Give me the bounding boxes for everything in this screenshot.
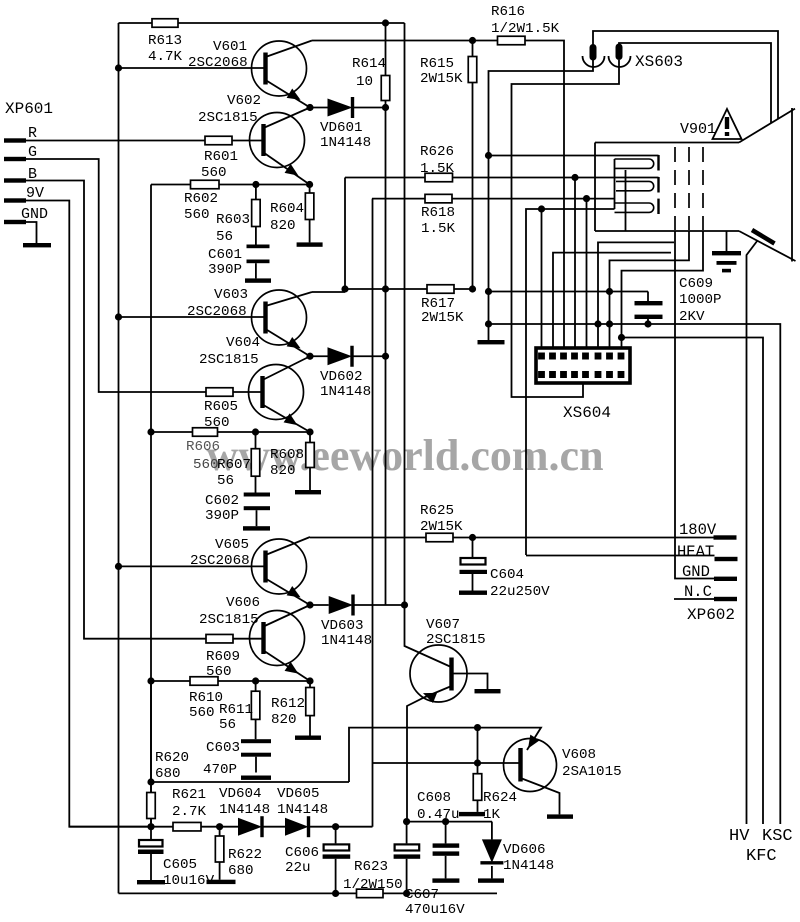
svg-text:KSC: KSC: [762, 827, 793, 846]
svg-text:1.5K: 1.5K: [420, 161, 455, 177]
wire 9V supply: [26, 201, 151, 827]
svg-text:2W15K: 2W15K: [421, 310, 464, 326]
node R608 top V604 emitter: [306, 428, 313, 435]
ground CRT aquadag: [712, 251, 741, 255]
svg-text:R626: R626: [420, 144, 454, 160]
XS604 top pin 6: [595, 353, 602, 360]
svg-text:0.47u: 0.47u: [417, 807, 460, 823]
svg-text:XS604: XS604: [563, 404, 611, 422]
CRT grid bar G: [657, 177, 659, 193]
capacitor C604: [472, 538, 474, 558]
svg-text:180V: 180V: [679, 521, 717, 539]
transistor V606 2SC1815 body: [250, 611, 305, 666]
wire G output column x345: [344, 178, 346, 290]
node C607 bottom: [403, 890, 410, 897]
transistor V607 body: [410, 645, 467, 702]
wire XS604 pin1: [541, 209, 543, 352]
resistor R603: [255, 185, 257, 200]
node R622 top: [216, 823, 223, 830]
transistor V601 collector: [266, 41, 313, 58]
svg-text:2W15K: 2W15K: [420, 519, 463, 535]
transistor V605 collector: [266, 537, 311, 555]
ground R604: [297, 242, 323, 246]
svg-text:R613: R613: [148, 33, 182, 49]
svg-text:2SC2068: 2SC2068: [190, 553, 250, 569]
resistor R625: [426, 533, 453, 542]
ground C608: [432, 878, 459, 882]
diode VD601: [310, 107, 328, 109]
svg-text:R612: R612: [271, 696, 305, 712]
node XS604 pin4 tap: [571, 174, 578, 181]
diode VD606: [491, 822, 493, 840]
transistor V608 body: [504, 739, 557, 792]
svg-text:820: 820: [270, 463, 296, 479]
transistor V607 collector: [452, 674, 488, 690]
wire B input: [26, 181, 206, 639]
XS604 bottom pin 11: [560, 371, 567, 378]
CRT funnel top edge: [739, 109, 795, 143]
XS604 bottom pin 14: [595, 371, 602, 378]
svg-text:1/2W150: 1/2W150: [343, 877, 403, 893]
XS604 bottom pin 9: [538, 371, 545, 378]
resistor R620: [150, 681, 152, 793]
svg-text:V601: V601: [213, 39, 247, 55]
transistor V606 collector: [264, 605, 311, 627]
CRT gun cathode G: [616, 181, 654, 190]
wire KSC line: [622, 338, 764, 825]
node C603 line from bias column: [147, 778, 154, 785]
resistor R605: [206, 388, 233, 397]
svg-text:VD602: VD602: [320, 369, 363, 385]
resistor R613: [152, 19, 178, 28]
svg-text:1/2W1.5K: 1/2W1.5K: [491, 21, 560, 37]
node V601 emitter V602 collector: [306, 104, 313, 111]
transistor V602 base wire: [232, 140, 264, 142]
svg-text:C607: C607: [405, 887, 439, 903]
svg-text:470u16V: 470u16V: [405, 902, 465, 917]
svg-text:R611: R611: [219, 702, 253, 718]
XS604 bottom pin 10: [549, 371, 556, 378]
wire XS603 right jack to CRT: [619, 43, 771, 124]
capacitor C609: [647, 292, 649, 302]
node R617 R615 junction: [469, 285, 476, 292]
node R624 emitter tap: [474, 724, 481, 731]
transistor V605 base wire: [119, 565, 266, 567]
XP601 pin R: [4, 138, 26, 142]
node C606 top: [332, 823, 339, 830]
wire focus to XS604 pin2: [553, 253, 671, 352]
node R624 base node: [474, 759, 481, 766]
wire XS603 left jack to CRT top: [593, 31, 778, 120]
svg-text:1N4148: 1N4148: [219, 802, 270, 818]
transistor V603 collector: [266, 292, 313, 306]
wire top rail drop x404 to V607 base: [405, 23, 451, 667]
ground C605: [137, 880, 165, 884]
wire R input: [26, 140, 205, 142]
svg-text:R623: R623: [354, 859, 388, 875]
transistor V601 emitter: [266, 80, 311, 108]
XS604 top pin 8: [618, 353, 625, 360]
ground XP601: [23, 243, 51, 247]
wire stage1 bias rail: [151, 184, 310, 186]
XP601 pin 9V: [4, 198, 26, 202]
node C609 ground: [644, 320, 651, 327]
svg-text:56: 56: [219, 717, 236, 733]
svg-text:1N4148: 1N4148: [503, 858, 554, 874]
CRT envelope neck bottom: [595, 230, 739, 232]
ground R612: [295, 736, 321, 740]
node XS604 pin5 tap: [583, 195, 590, 202]
node R612 top V606 emitter: [306, 677, 313, 684]
XS604 top pin 4: [571, 353, 578, 360]
node R614 top: [382, 19, 389, 26]
wire XS604 pin5: [586, 199, 588, 352]
XP602 pin GND: [714, 577, 737, 581]
svg-text:C602: C602: [205, 493, 239, 509]
resistor R602: [191, 180, 220, 189]
svg-text:N.C: N.C: [684, 583, 712, 601]
svg-text:820: 820: [271, 712, 297, 728]
XP601 pin G: [4, 157, 26, 161]
node ground bus 324: [485, 320, 492, 327]
resistor R621: [173, 822, 201, 831]
transistor V601 base wire: [119, 67, 266, 69]
transistor V604 2SC1815 body: [249, 365, 304, 420]
wire common base bus x119: [118, 23, 120, 893]
wire GND stub: [26, 222, 37, 243]
svg-text:C601: C601: [208, 247, 242, 263]
svg-text:560: 560: [184, 207, 210, 223]
svg-text:R622: R622: [228, 847, 262, 863]
node heater XS604 pin1: [538, 205, 545, 212]
ground C601: [245, 278, 271, 282]
wire V603 collector to R626 column: [312, 291, 345, 293]
resistor R616: [498, 36, 526, 45]
svg-text:XS603: XS603: [635, 53, 683, 71]
XS604 bottom pin 16: [618, 371, 625, 378]
svg-text:C608: C608: [417, 790, 451, 806]
svg-text:R621: R621: [172, 787, 206, 803]
capacitor C606: [335, 827, 337, 844]
wire V608 emitter rail: [349, 728, 541, 782]
svg-text:390P: 390P: [205, 508, 239, 524]
XS604 top pin 5: [582, 353, 589, 360]
wire NC stub: [674, 598, 714, 600]
svg-text:1N4148: 1N4148: [321, 633, 372, 649]
resistor R609: [206, 634, 233, 643]
svg-text:2SC1815: 2SC1815: [426, 632, 486, 648]
svg-text:VD605: VD605: [277, 786, 320, 802]
transistor V601 2SC2068 body: [252, 41, 307, 96]
node pin7 G2: [606, 288, 613, 295]
XP602 pin NC: [714, 597, 737, 601]
wire top rail y23: [119, 22, 153, 24]
wire grid1 to XP602 GND: [675, 231, 714, 579]
node pin8 KSC: [618, 334, 625, 341]
capacitor C608: [445, 822, 447, 844]
CRT envelope neck top: [595, 142, 739, 144]
resistor R608: [309, 432, 311, 443]
wire ground bus y324: [489, 324, 781, 824]
svg-text:R614: R614: [352, 56, 386, 72]
svg-text:C604: C604: [490, 567, 524, 583]
CRT face: [791, 108, 793, 262]
CRT funnel bottom edge: [739, 231, 796, 261]
ground R622: [207, 880, 236, 884]
transistor V605 2SC2068 body: [252, 539, 307, 594]
wire stage3 bias rail: [151, 680, 310, 682]
transistor V602 2SC1815 body: [250, 113, 305, 168]
svg-text:R: R: [28, 125, 37, 142]
svg-text:R603: R603: [216, 212, 250, 228]
transistor V604 base wire: [233, 391, 263, 393]
wire stage2 bias rail: [151, 431, 310, 433]
ground R608: [295, 490, 321, 494]
node pin6 ground: [594, 320, 601, 327]
svg-text:R607: R607: [217, 457, 251, 473]
CRT grid1 dashed: [674, 147, 676, 230]
svg-text:R624: R624: [483, 790, 517, 806]
node R617 column G: [341, 285, 348, 292]
resistor R623: [357, 889, 384, 898]
wire R616 to XS604 pin3: [525, 41, 564, 353]
resistor R604: [309, 185, 311, 194]
connector XS603 right jack: [616, 44, 623, 61]
svg-text:2SC1815: 2SC1815: [198, 110, 258, 126]
wire B output column x372: [372, 199, 374, 827]
XS604 top pin 1: [538, 353, 545, 360]
resistor R612: [309, 681, 311, 688]
svg-text:C606: C606: [285, 845, 319, 861]
CRT gun cathode B: [615, 203, 654, 212]
CRT V901 warning triangle: [713, 109, 742, 139]
node bias column stage2: [147, 428, 154, 435]
svg-text:1000P: 1000P: [679, 292, 722, 308]
node V601 base: [115, 64, 122, 71]
svg-text:R615: R615: [420, 56, 454, 72]
wire XS603 left jack shield: [489, 60, 594, 341]
connector XS603 left jack: [590, 44, 597, 61]
svg-text:2W15K: 2W15K: [420, 71, 463, 87]
wire 9V rail: [69, 826, 173, 828]
svg-text:1N4148: 1N4148: [320, 384, 371, 400]
wire C603 bottom line: [151, 781, 349, 783]
svg-text:XP601: XP601: [5, 100, 53, 118]
diode VD602: [310, 355, 328, 357]
transistor V607 emitter: [407, 686, 452, 822]
svg-text:2KV: 2KV: [679, 309, 705, 325]
resistor R610: [190, 677, 218, 686]
svg-text:R610: R610: [189, 690, 223, 706]
svg-text:56: 56: [216, 229, 233, 245]
wire R618 to CRT cathode B: [452, 198, 614, 200]
wire G input: [26, 159, 206, 392]
svg-text:10: 10: [356, 74, 373, 90]
wire XS603 right jack to XS604 bottom: [512, 60, 620, 397]
node bias column stage3: [147, 677, 154, 684]
XS604 top pin 2: [549, 353, 556, 360]
svg-text:2.7K: 2.7K: [172, 804, 207, 820]
svg-text:R616: R616: [491, 4, 525, 20]
node pin7 ground: [606, 320, 613, 327]
node R620 bottom: [147, 823, 154, 830]
wire V601 collector rail y40: [312, 40, 498, 42]
node R611 top: [252, 677, 259, 684]
node R615 R616 junction: [469, 37, 476, 44]
diode VD603: [310, 604, 329, 606]
capacitor C603: [241, 739, 271, 743]
svg-text:R601: R601: [204, 149, 238, 165]
capacitor C602: [244, 493, 270, 497]
svg-text:V603: V603: [214, 287, 248, 303]
CRT grid2 dashed: [688, 147, 690, 230]
svg-text:R618: R618: [421, 205, 455, 221]
wire cathode R feed: [489, 155, 659, 157]
CRT grid bar R: [657, 155, 659, 171]
svg-text:4.7K: 4.7K: [148, 49, 183, 65]
svg-text:V604: V604: [226, 335, 260, 351]
XP602 pin 180V: [714, 535, 737, 539]
diode VD604: [220, 826, 238, 828]
resistor R617: [345, 288, 427, 290]
resistor R624: [477, 763, 479, 774]
ground XS603 shield: [478, 340, 505, 344]
wire R624 tap down: [477, 728, 479, 763]
svg-text:HEAT: HEAT: [677, 543, 714, 561]
svg-text:V606: V606: [226, 595, 260, 611]
resistor R611: [255, 681, 257, 691]
ground VD606: [478, 878, 504, 882]
node VD603 output to V607 base column: [401, 601, 408, 608]
transistor V605 emitter: [266, 579, 311, 606]
transistor V603 emitter: [266, 329, 311, 356]
node C607 top: [403, 818, 410, 825]
svg-text:GND: GND: [682, 563, 710, 581]
XS604 top pin 3: [560, 353, 567, 360]
node VD601 cathode R614: [382, 104, 389, 111]
ground V607 collector: [475, 689, 501, 693]
transistor V602 collector: [264, 108, 311, 129]
transistor V608 emitter arrow: [523, 735, 539, 752]
svg-text:2SC1815: 2SC1815: [199, 352, 259, 368]
CRT aquadag ground stem: [726, 231, 728, 251]
svg-text:2SC2068: 2SC2068: [187, 304, 247, 320]
XS604 bottom pin 12: [571, 371, 578, 378]
node R617 column R: [382, 285, 389, 292]
wire V608 base line: [373, 762, 521, 764]
transistor R609 base wire: [233, 638, 264, 640]
bar C603 bottom: [241, 776, 271, 780]
svg-text:C603: C603: [206, 740, 240, 756]
svg-text:22u250V: 22u250V: [490, 584, 550, 600]
transistor V604 collector: [263, 356, 311, 380]
svg-text:1N4148: 1N4148: [320, 135, 371, 151]
svg-text:22u: 22u: [285, 860, 311, 876]
node VD602 cathode: [382, 353, 389, 360]
wire HEAT line: [526, 555, 715, 557]
svg-text:R604: R604: [270, 201, 304, 217]
svg-text:560: 560: [189, 705, 215, 721]
svg-text:VD603: VD603: [321, 618, 364, 634]
svg-text:2SC2068: 2SC2068: [188, 55, 248, 71]
transistor V604 emitter: [263, 405, 311, 433]
svg-text:V605: V605: [215, 537, 249, 553]
node C608 top: [442, 818, 449, 825]
resistor R601: [205, 136, 232, 145]
capacitor C601: [247, 245, 270, 249]
wire V607 emitter rail: [407, 821, 492, 823]
ground C602: [243, 526, 270, 530]
resistor R607: [255, 432, 257, 449]
svg-text:390P: 390P: [208, 262, 242, 278]
svg-text:1.5K: 1.5K: [421, 221, 456, 237]
node V605 emitter V606 collector: [306, 601, 313, 608]
svg-text:VD601: VD601: [320, 120, 363, 136]
ground V608 collector: [547, 814, 573, 818]
svg-text:1K: 1K: [483, 807, 501, 823]
svg-text:R620: R620: [155, 750, 189, 766]
svg-text:C605: C605: [163, 857, 197, 873]
resistor R626: [345, 177, 425, 179]
svg-text:56: 56: [217, 473, 234, 489]
node V605 base: [115, 563, 122, 570]
XP601 pin GND: [4, 220, 26, 224]
XS604 top pin 7: [606, 353, 613, 360]
svg-text:R605: R605: [204, 399, 238, 415]
svg-text:680: 680: [228, 863, 254, 879]
CRT heater wire: [526, 209, 615, 555]
node R607 top: [252, 428, 259, 435]
svg-text:XP602: XP602: [687, 606, 735, 624]
svg-text:V602: V602: [227, 93, 261, 109]
svg-text:2SC1815: 2SC1815: [199, 612, 259, 628]
wire screen to XS604 pin6: [598, 242, 674, 352]
transistor V606 emitter: [264, 651, 311, 682]
svg-text:R608: R608: [270, 447, 304, 463]
CRT heater return R: [614, 159, 616, 209]
connector XS604 body: [536, 348, 630, 383]
wire grid3 to XS604 pin8: [622, 231, 704, 352]
resistor R622: [219, 827, 221, 836]
wire R output bus x385: [385, 108, 387, 606]
svg-text:R609: R609: [206, 649, 240, 665]
svg-text:R606: R606: [186, 439, 220, 455]
capacitor C605: [150, 827, 152, 839]
svg-text:680: 680: [155, 766, 181, 782]
CRT anode tick: [752, 230, 775, 244]
node C606 bottom: [332, 890, 339, 897]
XP602 pin HEAT: [715, 557, 738, 561]
svg-text:GND: GND: [21, 206, 48, 223]
CRT grid bar B: [657, 199, 659, 214]
transistor V603 base wire: [119, 316, 266, 318]
wire HV lead: [747, 241, 758, 825]
wire R626 to CRT cathode G: [453, 177, 659, 179]
resistor R615: [472, 41, 474, 57]
bar R624 bottom: [459, 812, 485, 816]
node R604 top V602 emitter: [306, 181, 313, 188]
svg-text:C609: C609: [679, 276, 713, 292]
XP601 pin B: [4, 178, 26, 182]
CRT heater return inner: [625, 170, 627, 231]
diode VD605: [262, 826, 285, 828]
wire bottom rail: [119, 892, 357, 894]
svg-text:470P: 470P: [203, 762, 237, 778]
CRT envelope back: [594, 143, 596, 232]
XS604 bottom pin 15: [606, 371, 613, 378]
CRT grid3 dashed: [702, 147, 704, 230]
svg-text:560: 560: [201, 165, 227, 181]
